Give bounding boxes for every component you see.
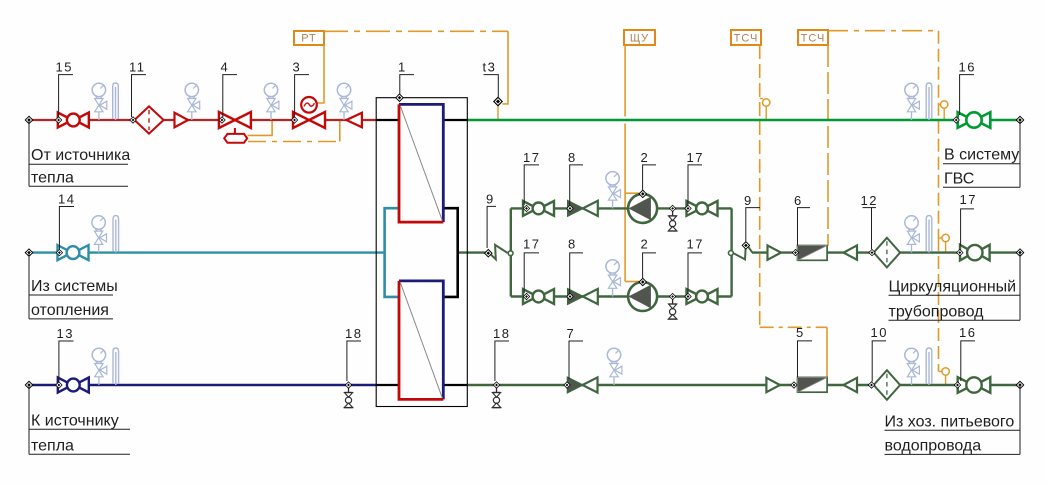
svg-text:6: 6: [794, 193, 803, 208]
svg-text:ЩУ: ЩУ: [630, 32, 649, 44]
svg-text:17: 17: [960, 192, 977, 207]
svg-text:5: 5: [796, 325, 805, 340]
svg-text:3: 3: [293, 59, 302, 74]
svg-text:10: 10: [871, 325, 888, 340]
svg-text:18: 18: [493, 326, 510, 341]
svg-text:К источнику: К источнику: [31, 413, 119, 430]
svg-text:7: 7: [567, 326, 576, 341]
svg-text:тепла: тепла: [31, 437, 74, 454]
svg-text:ТСЧ: ТСЧ: [734, 32, 759, 44]
svg-text:18: 18: [345, 326, 362, 341]
svg-text:8: 8: [568, 150, 577, 165]
svg-text:ТСЧ: ТСЧ: [801, 32, 826, 44]
svg-text:водопровода: водопровода: [885, 438, 982, 455]
svg-text:17: 17: [523, 237, 540, 252]
svg-text:17: 17: [687, 237, 704, 252]
svg-text:9: 9: [744, 193, 753, 208]
svg-text:тепла: тепла: [31, 169, 74, 186]
svg-text:13: 13: [57, 326, 74, 341]
svg-text:1: 1: [398, 59, 407, 74]
svg-text:РТ: РТ: [301, 32, 317, 44]
svg-text:ГВС: ГВС: [944, 170, 974, 187]
svg-text:9: 9: [486, 192, 495, 207]
svg-text:12: 12: [861, 193, 878, 208]
svg-text:Циркуляционный: Циркуляционный: [889, 279, 1017, 296]
svg-text:15: 15: [56, 59, 73, 74]
svg-text:16: 16: [959, 59, 976, 74]
svg-text:От источника: От источника: [31, 147, 130, 164]
svg-text:трубопровод: трубопровод: [889, 304, 985, 321]
svg-text:В систему: В систему: [944, 147, 1019, 164]
svg-text:16: 16: [959, 325, 976, 340]
svg-text:отопления: отопления: [31, 302, 109, 319]
svg-text:11: 11: [129, 59, 146, 74]
svg-text:17: 17: [523, 150, 540, 165]
svg-text:4: 4: [221, 59, 230, 74]
svg-text:17: 17: [687, 150, 704, 165]
svg-text:14: 14: [58, 192, 75, 207]
svg-text:8: 8: [568, 237, 577, 252]
svg-text:2: 2: [641, 237, 650, 252]
svg-text:t3: t3: [483, 59, 497, 74]
svg-text:Из системы: Из системы: [31, 278, 118, 295]
svg-text:Из хоз. питьевого: Из хоз. питьевого: [885, 413, 1015, 430]
svg-text:2: 2: [641, 150, 650, 165]
